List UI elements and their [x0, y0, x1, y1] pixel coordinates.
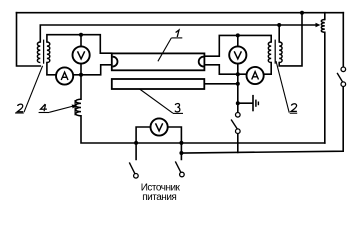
label 2 (left)	[17, 104, 23, 112]
junction node lower bus	[179, 151, 183, 155]
ground	[253, 95, 258, 111]
voltmeter V1	[73, 46, 90, 63]
junction node starter tap	[236, 82, 240, 86]
junction node bottom bus left	[134, 141, 138, 145]
transformer T1 right winding	[47, 42, 50, 62]
junction node ground tap	[236, 101, 240, 105]
transformer T2 core	[274, 40, 276, 64]
starter 3 body	[112, 79, 205, 89]
wire V2 top lead	[237, 35, 239, 46]
junction node V2-line3	[236, 33, 240, 37]
junction node V2-A2	[236, 72, 240, 76]
ammeter A2	[247, 67, 264, 84]
junction node bottom bus right	[179, 141, 183, 145]
wire V1 bottom lead	[80, 64, 82, 75]
ballast choke 4 winding	[76, 99, 81, 116]
wire bottom V loop left	[136, 127, 151, 159]
label 2 (right)	[291, 104, 297, 112]
transformer T1 left winding	[37, 42, 40, 62]
wire ground lead	[238, 102, 253, 104]
transformer T2 right winding	[279, 42, 282, 62]
wire tube right bottom to A2	[204, 65, 247, 74]
lamp tube 1 right electrode	[199, 57, 204, 67]
wire lower bus to right border	[181, 87, 343, 154]
wire rheostat lower lead	[324, 32, 326, 143]
wire left border loop	[17, 13, 41, 66]
wire top bus	[17, 12, 344, 14]
wire switch S2 lower lead	[237, 134, 239, 153]
wire right border top segment	[342, 13, 344, 66]
wire transformer2 right winding bottom to top bus	[279, 13, 302, 66]
rheostat R winding	[321, 20, 325, 33]
voltmeter V3 (bottom)	[151, 118, 168, 135]
switch S3 left blade (power)	[129, 162, 138, 178]
switch S3 right blade (power)	[175, 161, 184, 176]
lamp tube 1 body	[112, 53, 205, 70]
junction node top bus	[300, 11, 304, 15]
label 4 arrowhead	[72, 105, 77, 109]
wire line3 left (V1 top rail)	[47, 35, 112, 54]
wire ammeter A1 line	[47, 63, 112, 75]
wire V1 top lead	[80, 35, 82, 47]
label 4	[41, 104, 47, 111]
junction node V1-line3	[79, 33, 83, 37]
wire mid vertical with taps	[237, 74, 239, 112]
ammeter A1	[56, 67, 73, 84]
label 1	[176, 30, 179, 37]
transformer T2 left winding	[268, 42, 271, 62]
wire A2 to transformer2 left winding	[263, 63, 271, 75]
junction node V1-A1	[79, 73, 83, 77]
switch S2 (mid right)	[231, 113, 240, 134]
wire transformer2 right winding top to line2	[278, 25, 280, 42]
rheostat wiper arrowhead	[316, 23, 321, 28]
transformer T1 core	[43, 40, 45, 64]
wire V2 bottom lead	[237, 64, 239, 74]
wire starter3 right lead	[204, 83, 238, 85]
junction node line2-T2	[277, 23, 281, 27]
wire rheostat upper lead	[324, 13, 326, 20]
ballast choke 4 core	[74, 100, 76, 115]
wire coil4 branch + bottom bus left	[81, 75, 325, 143]
switch S1 (right border)	[337, 67, 346, 86]
voltmeter V2	[229, 46, 246, 63]
wire tube right top to line3 right	[204, 35, 271, 56]
svg-text:питания: питания	[142, 192, 176, 203]
lamp tube 1 left electrode	[113, 57, 118, 67]
wire middle bus (line2) to rheostat wiper	[40, 25, 315, 42]
wire bottom V loop right	[168, 127, 182, 159]
label 3	[175, 104, 180, 112]
